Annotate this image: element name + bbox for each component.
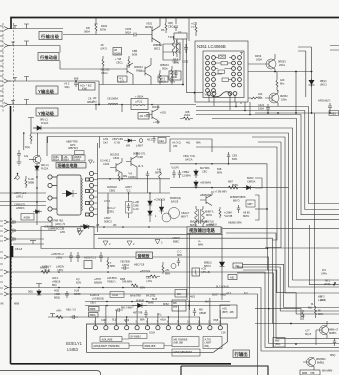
pin drop wires	[96, 298, 221, 325]
svg-text:C C: C C	[177, 250, 182, 254]
svg-text:C2: C2	[178, 30, 182, 34]
diode VD201	[33, 126, 41, 130]
svg-text:M/8M8: M/8M8	[136, 299, 144, 303]
svg-text:L8%: L8%	[60, 230, 66, 234]
svg-text:888C: 888C	[173, 239, 179, 243]
svg-text:90B052: 90B052	[153, 43, 163, 47]
pin numbers	[94, 321, 222, 324]
svg-text:AE/: AE/	[230, 276, 234, 280]
wire row F	[8, 272, 339, 347]
svg-text:M8/: M8/	[275, 339, 280, 343]
svg-text:*LM 88: *LM 88	[224, 214, 233, 218]
svg-text:84%: 84%	[232, 157, 238, 161]
node dots rail	[274, 71, 312, 73]
svg-text:(0A7): (0A7)	[101, 46, 107, 50]
label box A05B	[21, 214, 34, 221]
svg-text:48L: 48L	[186, 141, 191, 145]
svg-text:A05B: A05B	[24, 215, 31, 219]
svg-text:行输出级: 行输出级	[40, 33, 60, 40]
svg-text:400): 400)	[54, 289, 59, 293]
svg-text:R(s): R(s)	[25, 145, 30, 149]
svg-text:Y.L: Y.L	[191, 25, 195, 29]
svg-text:(.2%): (.2%)	[146, 279, 152, 283]
gnd triangle	[89, 160, 93, 164]
transistor V207	[126, 152, 137, 170]
svg-text:908043: 908043	[160, 63, 169, 67]
IC N201 right pins	[86, 171, 94, 216]
svg-text:A/82?: A/82?	[125, 185, 132, 189]
svg-text:80%: 80%	[318, 312, 324, 316]
svg-text:M8(): M8()	[330, 353, 335, 357]
svg-text:8M8(J8/8: 8M8(J8/8	[145, 344, 156, 348]
svg-text:L/8C2: L/8C2	[122, 263, 129, 267]
caps	[115, 308, 123, 311]
capacitor	[177, 258, 180, 266]
svg-text:C020A: C020A	[128, 175, 136, 179]
svg-text:90C052: 90C052	[101, 68, 111, 72]
svg-text:8L/8: 8L/8	[152, 297, 158, 301]
svg-text:音频放: 音频放	[138, 252, 151, 258]
label box B5	[56, 162, 86, 168]
wire thick bottom	[11, 363, 232, 365]
svg-text:C/Y.2: C/Y.2	[104, 199, 111, 203]
svg-text:C352: C352	[182, 60, 189, 64]
box bottom	[300, 370, 320, 375]
svg-text:2Ks: 2Ks	[258, 95, 263, 99]
transformer T	[195, 209, 198, 224]
svg-text:L8MM/9CC3B: L8MM/9CC3B	[48, 227, 65, 231]
svg-text:L8R.2: L8R.2	[16, 194, 23, 198]
label box B2	[38, 53, 59, 62]
svg-text:A005/T2.3: A005/T2.3	[84, 256, 97, 260]
svg-text:KW): KW)	[82, 86, 87, 90]
label box B8	[233, 350, 250, 358]
wire row H	[8, 294, 258, 375]
svg-text:P.L.: P.L.	[158, 313, 163, 317]
svg-text:C8R0A: C8R0A	[247, 179, 256, 183]
transistor V	[33, 156, 41, 164]
svg-text:(L8C) 72: (L8C) 72	[55, 222, 66, 226]
wire collector rail	[248, 71, 312, 73]
svg-text:*2.2: *2.2	[126, 188, 131, 192]
svg-text:S/3: S/3	[146, 269, 150, 273]
svg-text:8K: 8K	[1, 302, 4, 306]
svg-text:9L S: 9L S	[138, 164, 144, 168]
svg-text:A8080/84: A8080/84	[200, 193, 212, 197]
coil bumps right edge	[81, 178, 83, 211]
svg-text:A8 80: A8 80	[243, 211, 250, 215]
cap right	[333, 338, 336, 346]
wires right	[255, 324, 316, 346]
wire bus L3	[196, 115, 339, 215]
svg-text:W1: W1	[322, 268, 326, 272]
coil tap T symbols row1	[13, 24, 29, 29]
label box B1	[39, 32, 62, 41]
svg-text:AE1: AE1	[331, 112, 336, 116]
capacitor	[152, 136, 155, 143]
svg-text:8/8: 8/8	[173, 301, 177, 305]
svg-text:88%: 88%	[165, 271, 171, 275]
svg-text:8Ks: 8Ks	[280, 81, 285, 85]
wire row C	[8, 238, 44, 240]
svg-text:8.3: 8.3	[244, 291, 248, 295]
svg-text:C306: C306	[125, 27, 132, 31]
wire AE out 4	[237, 273, 273, 347]
svg-text:视放输出电路: 视放输出电路	[189, 227, 215, 234]
svg-text:C82L/7: C82L/7	[181, 211, 190, 215]
svg-text:8A/C8: 8A/C8	[171, 199, 179, 203]
box AE2	[158, 138, 166, 144]
svg-text:8888: 8888	[90, 307, 96, 311]
svg-text:089A: 089A	[112, 97, 118, 101]
IC N351 outer box	[195, 41, 248, 102]
wires under IC N351	[31, 95, 339, 293]
svg-text:R304: R304	[101, 24, 108, 28]
wire row E	[8, 257, 339, 344]
box filter	[131, 99, 148, 110]
diode VD452 zener	[309, 79, 315, 87]
wire row4 long	[8, 104, 196, 106]
svg-text:9R(-C): 9R(-C)	[41, 163, 49, 167]
svg-text:行输出: 行输出	[234, 351, 249, 358]
svg-text:98A: 98A	[196, 141, 201, 145]
connector pins left ticks top	[0, 26, 3, 106]
svg-text:78/8(Y): 78/8(Y)	[107, 279, 116, 283]
svg-text:L+7.88 M8Y: L+7.88 M8Y	[213, 190, 227, 194]
svg-text:M8?: M8?	[248, 202, 254, 206]
wire h y178.8	[98, 178, 171, 180]
svg-text:C8B: C8B	[132, 49, 137, 53]
svg-text:88YO: 88YO	[233, 198, 240, 202]
svg-text:99(s: 99(s	[65, 85, 71, 89]
IC N351 pins left	[206, 56, 216, 93]
svg-text:R6: R6	[161, 28, 165, 32]
svg-text:42.2: 42.2	[173, 57, 179, 61]
ground	[17, 158, 22, 165]
svg-text:88C2: 88C2	[154, 46, 161, 50]
box top right	[163, 44, 180, 60]
svg-text:M87: M87	[228, 180, 234, 184]
wire corner NC	[98, 238, 339, 323]
transistor V204	[139, 58, 151, 85]
wire bus L9	[196, 147, 277, 240]
svg-text:2R: 2R	[93, 96, 96, 100]
wire AE out 1	[243, 264, 339, 307]
transistor V206	[110, 158, 122, 176]
svg-text:90860-071: 90860-071	[133, 152, 146, 156]
svg-text:M/: M/	[318, 309, 321, 313]
svg-text:L5IB3: L5IB3	[67, 347, 79, 352]
resistor v	[219, 207, 221, 218]
svg-text:M/88 *L: M/88 *L	[205, 210, 214, 214]
svg-text:48/2: 48/2	[190, 295, 196, 299]
svg-text:80%: 80%	[217, 170, 223, 174]
wire row G	[8, 288, 339, 352]
svg-text:M8-M8M: M8-M8M	[322, 369, 332, 373]
svg-text:Y推动级: Y推动级	[38, 110, 55, 117]
capacitor c8s	[227, 152, 230, 164]
label box B4	[36, 108, 58, 117]
coil T352	[176, 39, 179, 57]
svg-text:C8-L8: C8-L8	[15, 247, 23, 251]
resistor R	[118, 172, 120, 181]
wire W1	[309, 225, 339, 285]
svg-text:(9KC): (9KC)	[320, 82, 327, 86]
capacitor C309	[174, 18, 178, 32]
svg-text:+C/8M: +C/8M	[224, 211, 232, 215]
wire y317 row	[48, 316, 200, 318]
diode on y227 wire	[78, 225, 89, 235]
svg-text:-M8: -M8	[229, 310, 234, 314]
capacitor C421	[266, 104, 270, 113]
svg-text:A8(88) 98%: A8(88) 98%	[228, 221, 242, 225]
svg-text:82%: 82%	[76, 280, 82, 284]
svg-text:HR/5+B(7): HR/5+B(7)	[318, 99, 330, 103]
svg-text:200A: 200A	[184, 113, 190, 117]
IC N351 gate cells	[215, 53, 243, 82]
coil tap T symbols row4	[11, 100, 29, 105]
transistor circle big	[162, 213, 171, 222]
mid components y255-290 x120-170	[121, 262, 164, 287]
svg-text:848: 848	[217, 167, 222, 171]
svg-text:R453: R453	[255, 54, 262, 58]
svg-text:180A: 180A	[256, 57, 262, 61]
resistor R304	[94, 18, 98, 35]
left connector mid dashed	[11, 218, 13, 300]
gnd triangle 7	[77, 229, 81, 233]
capacitor stack	[127, 203, 130, 211]
svg-text:L8R0%: L8R0%	[16, 206, 25, 210]
box MC	[175, 290, 187, 298]
diode right	[132, 303, 147, 307]
svg-text:L82: L82	[173, 144, 178, 148]
box B outline	[99, 137, 101, 149]
svg-text:场输出电路: 场输出电路	[58, 162, 78, 168]
svg-text:8/8(8%: 8/8(8%	[94, 280, 103, 284]
svg-text:R.02A: R.02A	[41, 121, 48, 125]
IC N351 bottom pins	[207, 92, 237, 97]
svg-text:(L98): (L98)	[320, 298, 326, 302]
wire rail y113	[255, 112, 339, 114]
svg-text:9B(Z): 9B(Z)	[320, 79, 327, 83]
svg-text:M88: M88	[14, 302, 20, 306]
below wire G	[36, 284, 69, 299]
diode under IC	[80, 224, 90, 227]
svg-text:W8: W8	[126, 143, 130, 147]
resistor	[302, 310, 304, 320]
wire row B	[8, 230, 56, 232]
resistor on wire F	[41, 271, 50, 274]
bottom rounded box	[0, 371, 101, 375]
svg-text:88(): 88()	[52, 283, 57, 287]
resistor v2	[128, 56, 130, 68]
svg-text:A8: A8	[96, 223, 100, 227]
svg-text:8Y(38 M8: 8Y(38 M8	[196, 220, 208, 224]
svg-text:C8C1: C8C1	[116, 60, 123, 64]
small box row above IC	[52, 151, 85, 162]
svg-text:AB8/*7R8: AB8/*7R8	[66, 140, 78, 144]
capacitor C352	[184, 44, 188, 53]
coil tap T symbols row2	[11, 41, 29, 46]
svg-text:+/8Y8: +/8Y8	[94, 277, 101, 281]
connector arrow pin 1	[4, 27, 11, 31]
svg-text:9R052: 9R052	[280, 94, 288, 98]
svg-text:*L(UP): *L(UP)	[171, 166, 179, 170]
svg-text:T301: T301	[168, 35, 174, 39]
svg-text:9CO+Y: 9CO+Y	[107, 206, 116, 210]
wire bus L6	[31, 133, 339, 287]
transistor V454	[265, 90, 279, 106]
svg-text:H8M8: H8M8	[199, 311, 206, 315]
label box B6	[136, 252, 153, 259]
svg-text:N351 LC4066B: N351 LC4066B	[197, 44, 226, 49]
svg-text:4(B): 4(B)	[168, 21, 173, 25]
diode on x222	[220, 261, 225, 300]
svg-text:(8M): (8M)	[275, 342, 280, 346]
svg-text:29Cs: 29Cs	[279, 63, 286, 67]
svg-text:+8 (YC): +8 (YC)	[172, 141, 181, 145]
svg-text:C8S: C8S	[232, 154, 237, 158]
svg-text:8Y-8M8J: 8Y-8M8J	[131, 334, 142, 338]
svg-text:C#J: C#J	[103, 140, 108, 144]
+B circle	[171, 264, 176, 269]
svg-text:u.P.22: u.P.22	[135, 100, 143, 104]
wire AE out 3	[243, 270, 339, 314]
IC N201 left pins	[48, 175, 57, 221]
svg-text:*+8: *+8	[128, 172, 133, 176]
svg-text:+2?: +2?	[305, 329, 310, 333]
svg-text:950s: 950s	[162, 66, 168, 70]
svg-text:080A: 080A	[87, 100, 93, 104]
svg-text:MC: MC	[177, 292, 181, 296]
svg-text:A(): A()	[76, 277, 80, 281]
IC N201 body	[57, 175, 83, 215]
svg-text:(8Ks): (8Ks)	[173, 60, 179, 64]
svg-text:C/88: C/88	[133, 203, 139, 207]
svg-text:+003: +003	[160, 111, 166, 115]
diode D small	[124, 136, 166, 143]
wire link ND	[94, 233, 223, 235]
svg-text:9R053: 9R053	[278, 60, 286, 64]
svg-text:+C8: +C8	[201, 267, 206, 271]
svg-text:8M%: 8M%	[190, 223, 197, 227]
boxes left	[89, 307, 100, 312]
svg-text:88/88: 88/88	[74, 292, 81, 296]
svg-text:48.2: 48.2	[147, 138, 153, 142]
stubs	[108, 170, 162, 222]
wire thick top	[11, 18, 339, 30]
bottom dark box	[181, 366, 268, 375]
svg-text:L(C3: L(C3	[119, 79, 125, 83]
wire h y187.6	[170, 187, 289, 189]
wire bus L2	[196, 111, 339, 210]
resistor on wire	[228, 186, 238, 189]
svg-text:L+08: L+08	[133, 200, 139, 204]
coil on wire	[108, 103, 118, 104]
svg-text:180A: 180A	[258, 106, 264, 110]
svg-text:Y82*800: Y82*800	[120, 260, 131, 264]
svg-text:8/88/8Y: 8/88/8Y	[40, 266, 49, 270]
wire bus L5	[33, 128, 339, 280]
diode pair	[148, 198, 152, 209]
svg-text:R.02A: R.02A	[41, 166, 48, 170]
diode on wire	[243, 186, 255, 190]
box JR400W	[113, 48, 122, 56]
svg-text:888: 888	[173, 304, 178, 308]
svg-text:/AE: /AE	[235, 264, 239, 268]
svg-text:M/88M7088S: M/88M7088S	[230, 195, 246, 199]
svg-text:13A: 13A	[221, 331, 226, 335]
small box	[273, 338, 285, 348]
svg-text:M/82: M/82	[163, 302, 169, 306]
box part	[174, 33, 187, 39]
capacitor	[146, 171, 149, 179]
svg-text:8008/2(2): 8008/2(2)	[170, 196, 181, 200]
capacitor C422	[328, 103, 332, 113]
wire	[63, 34, 131, 36]
resistor v4	[171, 66, 173, 85]
svg-text:s.2: s.2	[157, 167, 161, 171]
wire	[30, 121, 32, 128]
wire into IC	[183, 39, 203, 93]
transistor mid	[200, 191, 212, 206]
capacitor right	[174, 70, 177, 78]
coil L301	[172, 36, 175, 56]
svg-text:+8()+: +8()+	[160, 318, 167, 322]
svg-text:C82: C82	[146, 276, 151, 280]
transistor V	[320, 326, 329, 335]
capacitor	[237, 205, 240, 213]
components above IC right part	[172, 300, 237, 318]
svg-text:C/381: C/381	[107, 209, 114, 213]
svg-text:M0%: M0%	[206, 213, 213, 217]
wire bus L7	[252, 137, 339, 293]
svg-text:082A: 082A	[125, 30, 131, 34]
svg-text:S.2R: S.2R	[28, 177, 34, 181]
svg-text:C881: C881	[109, 188, 116, 192]
wire h y193	[98, 192, 171, 194]
svg-text:JR: JR	[114, 48, 117, 52]
svg-text:C8C: C8C	[202, 169, 207, 173]
box small	[192, 268, 200, 276]
svg-text:Y输出级: Y输出级	[38, 88, 55, 95]
svg-text:行推动级: 行推动级	[39, 54, 58, 61]
wire row3	[8, 81, 183, 105]
svg-text:8+/8C/3: 8+/8C/3	[90, 293, 100, 297]
svg-text:+005/T8.-3: +005/T8.-3	[51, 252, 64, 256]
svg-text:9/206A8: 9/206A8	[107, 185, 117, 189]
IC N101 body	[87, 324, 228, 352]
diode VD	[35, 164, 39, 174]
wire	[255, 309, 301, 320]
svg-text:M8: M8	[199, 308, 203, 312]
svg-text:0.8%: 0.8%	[74, 158, 81, 162]
svg-text:8M%: 8M%	[243, 214, 250, 218]
svg-text:LAB/7: LAB/7	[136, 143, 144, 147]
resistor squiggle x185	[180, 117, 193, 120]
svg-text:400W: 400W	[114, 51, 121, 55]
svg-text:L/93: L/93	[103, 137, 109, 141]
svg-text:M8M+(7: M8M+(7	[329, 328, 339, 332]
transistor V2	[307, 358, 316, 367]
svg-text:CH2: CH2	[220, 55, 226, 59]
svg-text:9R(-C): 9R(-C)	[40, 118, 48, 122]
svg-text:A/8 88%: A/8 88%	[107, 276, 117, 280]
svg-text:Y/88A: Y/88A	[182, 170, 189, 174]
transistor V203	[121, 63, 133, 85]
wire verticals	[96, 105, 122, 113]
notes box	[13, 173, 94, 249]
